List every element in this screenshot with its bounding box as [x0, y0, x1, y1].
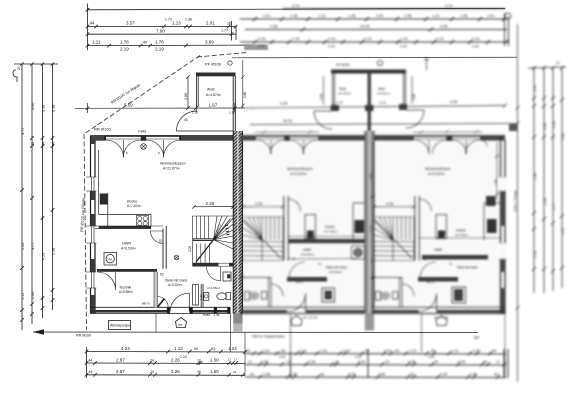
- svg-text:1.13: 1.13: [432, 14, 439, 18]
- svg-text:10: 10: [197, 358, 201, 362]
- bottom chain line 2: [87, 362, 246, 365]
- svg-text:3.99: 3.99: [205, 40, 214, 45]
- svg-text:3.38: 3.38: [52, 105, 56, 112]
- svg-text:A=4.87m²: A=4.87m²: [338, 92, 351, 96]
- bottom chains verticals from plan: [231, 314, 246, 376]
- top dimension chain line 3: [88, 33, 237, 35]
- svg-text:24: 24: [320, 373, 324, 377]
- left wall double line: [91, 136, 96, 314]
- washing machine: [104, 253, 117, 266]
- svg-text:3.38: 3.38: [42, 105, 46, 112]
- svg-text:3.57: 3.57: [126, 21, 135, 26]
- glazing center symbol circle-x: [141, 144, 147, 150]
- blurred unit3 hall door arc: [420, 262, 436, 278]
- shed bottom edge: [197, 107, 234, 132]
- svg-text:1.08: 1.08: [238, 174, 242, 180]
- svg-text:A=1.56m²: A=1.56m²: [207, 286, 220, 290]
- svg-text:1.86: 1.86: [320, 94, 324, 100]
- bottom chain line1 ticks: [85, 350, 247, 354]
- blurred glazing unit3: [414, 137, 480, 139]
- door leaf arcs: [106, 140, 124, 158]
- svg-text:24: 24: [410, 373, 414, 377]
- blurred top chain number blobs: [258, 4, 494, 41]
- svg-text:2.19: 2.19: [258, 37, 265, 41]
- blurred glazing unit2 sill dim: [255, 130, 319, 134]
- svg-text:75/85: 75/85: [203, 313, 211, 317]
- svg-text:1.24: 1.24: [473, 349, 480, 353]
- svg-text:RR Ø100: RR Ø100: [76, 334, 91, 338]
- svg-text:1.38: 1.38: [460, 14, 467, 18]
- Technik door arc into Diele: [157, 297, 168, 308]
- svg-text:3.77: 3.77: [31, 243, 35, 250]
- top chain line1 tick: [86, 8, 90, 12]
- blurred overall line y=124: [250, 124, 517, 125]
- blurred shed door arcs: [314, 111, 332, 129]
- blurred unit2 kitchen counter at party wall 2: [353, 203, 365, 240]
- left wall window2 lines: [86, 226, 97, 243]
- svg-text:2.26: 2.26: [358, 360, 365, 364]
- svg-text:1.13: 1.13: [172, 21, 181, 26]
- small blurred band left of boundary line: [244, 45, 268, 51]
- svg-text:24: 24: [233, 370, 237, 374]
- svg-text:1.50: 1.50: [470, 373, 477, 377]
- bottom wall jamb blocks: [167, 307, 170, 313]
- HWR right wall: [163, 226, 166, 269]
- svg-text:24: 24: [335, 360, 339, 364]
- svg-text:2.87: 2.87: [116, 369, 125, 374]
- left wall window3 lines: [86, 272, 97, 288]
- glazing frame lines: [105, 137, 180, 139]
- svg-text:63: 63: [160, 273, 164, 277]
- svg-text:1.74: 1.74: [336, 101, 343, 105]
- svg-text:2.19: 2.19: [364, 37, 371, 41]
- svg-text:1.77: 1.77: [221, 29, 228, 33]
- shed door arc: [177, 111, 197, 131]
- blurred top chain D: [240, 41, 509, 43]
- top dimension chain line 1: [88, 8, 506, 9]
- svg-text:1.67: 1.67: [209, 102, 218, 107]
- left chain line C: [42, 64, 44, 318]
- svg-text:2.26: 2.26: [171, 369, 180, 374]
- top chain line4 ticks: [86, 44, 188, 48]
- wall between HWR and Technik: [97, 269, 157, 272]
- svg-text:24: 24: [150, 358, 154, 362]
- svg-text:1.18: 1.18: [533, 251, 537, 258]
- svg-text:4.74: 4.74: [292, 4, 299, 8]
- svg-text:2.55: 2.55: [21, 243, 25, 250]
- svg-text:1.01: 1.01: [263, 14, 270, 18]
- svg-text:2.26: 2.26: [308, 360, 315, 364]
- svg-text:2.26: 2.26: [440, 373, 447, 377]
- svg-text:2.26: 2.26: [290, 373, 297, 377]
- left chains mid ticks: [30, 136, 54, 148]
- svg-text:63: 63: [246, 349, 250, 353]
- blurred top wall units 2-3: [240, 135, 505, 137]
- svg-text:1.86: 1.86: [243, 92, 247, 98]
- svg-text:1.00: 1.00: [533, 85, 537, 92]
- svg-text:2.19: 2.19: [155, 47, 164, 52]
- blurred shed side dims: [324, 76, 413, 105]
- svg-text:10: 10: [385, 360, 389, 364]
- blurred unit3 kitchen counter at right wall: [484, 203, 501, 240]
- svg-text:3.38: 3.38: [543, 123, 547, 130]
- svg-text:2.88: 2.88: [533, 173, 537, 180]
- svg-text:1.50: 1.50: [378, 373, 385, 377]
- svg-text:Abst.: Abst.: [378, 87, 386, 91]
- blurred unit3 circle symbol: [441, 231, 446, 236]
- svg-text:45: 45: [184, 118, 188, 122]
- vertical dim at shed left (1.86): [186, 75, 190, 110]
- left wall window1 lines: [86, 177, 97, 191]
- svg-text:A=9.32m²: A=9.32m²: [168, 283, 182, 287]
- blurred unit2 WT symbol: [291, 316, 302, 326]
- svg-text:99: 99: [194, 347, 198, 351]
- svg-text:5.59: 5.59: [124, 102, 133, 107]
- blurred unit2 bottom wall: [240, 307, 365, 313]
- blurred circle at top right end: [505, 13, 511, 19]
- cooktop circles: [137, 215, 149, 226]
- svg-text:2.63: 2.63: [238, 226, 242, 232]
- svg-text:1.76: 1.76: [400, 37, 407, 41]
- svg-text:36 1.01 99: 36 1.01 99: [434, 316, 449, 320]
- svg-text:1.11: 1.11: [21, 293, 25, 300]
- blurred sheds bottom jamb blobs: [331, 105, 339, 111]
- svg-text:44: 44: [52, 142, 56, 146]
- svg-text:34.41: 34.41: [283, 119, 293, 123]
- svg-text:1.24: 1.24: [262, 349, 269, 353]
- top wall lines: [90, 136, 236, 140]
- top dimension chain line 2: [88, 26, 237, 28]
- svg-text:24: 24: [250, 373, 254, 377]
- blurred unit3 WT symbol: [436, 316, 447, 326]
- stair left boundary: [191, 216, 193, 263]
- svg-text:HWR: HWR: [122, 242, 131, 246]
- blurred small window arc right end: [481, 140, 487, 146]
- top chain right end verticals: [232, 21, 237, 41]
- blurred unit2 hall door arc: [289, 262, 305, 278]
- party wall below-wall extension: [233, 314, 242, 324]
- blurred unit3 cooktop column: [436, 215, 447, 239]
- svg-text:Diele mit Gard.: Diele mit Gard.: [165, 279, 188, 283]
- svg-text:1.76: 1.76: [155, 40, 164, 45]
- blurred unit2 stair: [242, 217, 283, 261]
- stair lower treads verticals: [197, 244, 210, 264]
- top chain left extension vertical: [87, 4, 89, 51]
- left chain line A: [21, 64, 23, 330]
- svg-text:63: 63: [211, 347, 215, 351]
- technik wall extension below bottom wall: [155, 314, 157, 333]
- svg-text:1.50: 1.50: [210, 357, 219, 362]
- blurred unit3 stair-side wall: [415, 196, 420, 261]
- svg-text:1.50: 1.50: [210, 369, 219, 374]
- svg-text:Abst.: Abst.: [207, 88, 216, 92]
- svg-text:28: 28: [227, 22, 231, 26]
- blurred sheds center wall: [368, 73, 372, 131]
- svg-text:1.76: 1.76: [292, 37, 299, 41]
- svg-text:4.26: 4.26: [450, 100, 457, 104]
- blurred glazing unit2: [256, 137, 318, 139]
- svg-text:2.25: 2.25: [206, 201, 215, 206]
- left dimension chains (4 vertical): [13, 62, 58, 330]
- left chain line D: [52, 64, 54, 310]
- blurred unit3 washer dark blob: [452, 287, 466, 303]
- blurred unit3 stair wall door arc: [419, 199, 431, 211]
- bottom dimension chains sharp: [85, 314, 247, 379]
- blurred PF circle: [377, 60, 382, 65]
- stair top boundary: [192, 215, 233, 217]
- svg-text:PF Ø100: PF Ø100: [205, 62, 222, 67]
- bottom chain labels: [89, 346, 238, 374]
- svg-text:4.24: 4.24: [121, 346, 130, 351]
- blurred top chain C: [245, 29, 507, 31]
- svg-text:3.88: 3.88: [561, 133, 565, 140]
- dashed pipe line flat segment: [197, 53, 247, 58]
- blurred unit2 stair dim 2.25: [241, 205, 285, 209]
- left wall window gaps (white): [89, 177, 96, 191]
- svg-text:4.74: 4.74: [445, 4, 452, 8]
- top boundary line y=57.5: [232, 56, 517, 59]
- blurred right mini dim cross: [424, 57, 429, 70]
- svg-text:1.86: 1.86: [184, 93, 188, 100]
- svg-text:44: 44: [89, 358, 93, 362]
- svg-text:Küche: Küche: [127, 200, 137, 204]
- svg-text:1.01: 1.01: [487, 14, 494, 18]
- blurred unit2 mid wall band: [287, 277, 327, 282]
- svg-text:99: 99: [365, 349, 369, 353]
- svg-text:1.38: 1.38: [185, 18, 192, 22]
- shed right side vertical dim: [241, 60, 245, 108]
- left chain line B: [31, 64, 33, 324]
- svg-text:3.00: 3.00: [552, 121, 556, 128]
- blurred unit2 kitchen wall band: [288, 239, 365, 243]
- svg-text:10: 10: [287, 360, 291, 364]
- Technik door leaf: [157, 299, 164, 308]
- svg-text:1.01: 1.01: [320, 349, 327, 353]
- blurred 5.59-line continuation: [245, 106, 505, 109]
- svg-text:1.11: 1.11: [92, 40, 101, 45]
- svg-text:99: 99: [492, 349, 496, 353]
- WC vent box: [223, 272, 231, 281]
- svg-text:3.77: 3.77: [21, 128, 25, 135]
- svg-text:Technik: Technik: [119, 286, 131, 290]
- svg-text:1.24: 1.24: [409, 349, 416, 353]
- svg-text:4.29: 4.29: [42, 253, 46, 260]
- svg-text:2.01: 2.01: [206, 21, 215, 26]
- blurred top chain ticks: [253, 17, 506, 21]
- stair walk line lower: [196, 240, 214, 262]
- blurred unit3 stair dim 2.25: [372, 205, 416, 209]
- svg-text:17: 17: [234, 357, 238, 361]
- top chain labels row2: [90, 18, 231, 26]
- svg-text:A=21.87m²: A=21.87m²: [163, 167, 181, 171]
- stair dim 2.25: [194, 206, 233, 208]
- blurred unit2 cooktop column: [305, 215, 316, 239]
- blurred unit3 mid wall band: [418, 277, 458, 282]
- WC left wall: [201, 284, 203, 307]
- blurred party wall 2: [365, 131, 374, 314]
- svg-text:2.19: 2.19: [258, 45, 265, 49]
- svg-text:2.19: 2.19: [472, 37, 479, 41]
- svg-text:2.87: 2.87: [116, 357, 125, 362]
- svg-text:7.00: 7.00: [156, 29, 165, 34]
- svg-text:44: 44: [31, 142, 35, 146]
- top wall corner block left: [90, 136, 105, 140]
- svg-text:29: 29: [17, 66, 21, 70]
- svg-text:2.19: 2.19: [328, 45, 335, 49]
- svg-text:1.86: 1.86: [412, 94, 416, 100]
- bottom chain line2 ticks: [85, 361, 238, 365]
- HWR door arc: [151, 231, 164, 244]
- blurred top chain A: [283, 8, 505, 10]
- shed top wall: [196, 73, 236, 77]
- bottom chains left vertical: [86, 347, 88, 378]
- toilet: [226, 293, 231, 300]
- left chain rotated labels: [17, 66, 56, 300]
- stair walk line upper: [214, 219, 231, 240]
- stair fan tick cluster: [225, 225, 230, 235]
- blurred sheds pair: [331, 70, 406, 74]
- blurred unit2 stair-side wall: [284, 196, 289, 261]
- svg-text:1.24: 1.24: [228, 346, 237, 351]
- svg-text:2.38: 2.38: [543, 198, 547, 205]
- glazing hinge posts: [104, 136, 106, 141]
- top dimension chain line 4: [88, 44, 253, 47]
- svg-text:Abst.: Abst.: [339, 87, 347, 91]
- svg-text:1.13: 1.13: [318, 14, 325, 18]
- top chain labels row3: [156, 29, 228, 34]
- top chain line3 ticks: [86, 32, 234, 36]
- blurred unit3 inner dim line at right wall: [495, 142, 499, 200]
- svg-text:4.29: 4.29: [561, 228, 565, 235]
- shed dim verticals at 1.67 line: [197, 103, 235, 112]
- blurred verticals below bottom wall: [291, 314, 506, 379]
- svg-text:1.13: 1.13: [343, 349, 350, 353]
- svg-text:2.26: 2.26: [171, 357, 180, 362]
- glazing mullion block: [141, 135, 146, 141]
- door HWR->Technik arc: [98, 272, 116, 290]
- stair winder fan: [214, 216, 234, 249]
- left chains hook symbol: [13, 70, 17, 82]
- kitchen counter outline: [99, 150, 151, 226]
- dashed pipe line diagonal (RR zur Rigole): [84, 56, 200, 135]
- blurred top chain B: [240, 18, 507, 20]
- blurred unit2 WC fill tints: [251, 293, 258, 298]
- entrance door arc: [170, 293, 189, 311]
- svg-text:1.24: 1.24: [384, 349, 391, 353]
- bottom wall band: [91, 306, 231, 308]
- wardrobe in Diele: [193, 285, 199, 306]
- blurred unit3 bottom wall: [372, 307, 506, 313]
- kitchen wall band: [99, 226, 151, 229]
- svg-text:4.36: 4.36: [270, 25, 277, 29]
- svg-text:A=6.53m²: A=6.53m²: [121, 247, 137, 251]
- Waermepumpe box: [109, 321, 131, 330]
- blurred unit3 party-side vertical dim: [371, 141, 375, 307]
- svg-text:3.00: 3.00: [31, 103, 35, 110]
- blurred unit3 entrance arc: [419, 294, 437, 312]
- WC sink: [204, 293, 209, 301]
- svg-text:2.19: 2.19: [328, 37, 335, 41]
- svg-text:1.38: 1.38: [214, 313, 220, 317]
- svg-text:44: 44: [90, 21, 96, 26]
- svg-text:S#: S#: [474, 335, 480, 340]
- svg-text:A=5.98m²: A=5.98m²: [119, 290, 133, 294]
- svg-text:99: 99: [281, 349, 285, 353]
- wall band below stair (WC top wall): [192, 263, 218, 267]
- svg-text:2.19: 2.19: [472, 45, 479, 49]
- blurred unit3 stair: [373, 217, 414, 261]
- svg-text:SW im Treppenhaus: SW im Treppenhaus: [252, 335, 285, 339]
- svg-text:4.26: 4.26: [280, 102, 287, 106]
- svg-text:2.26: 2.26: [348, 373, 355, 377]
- svg-text:1.73: 1.73: [165, 18, 172, 22]
- svg-text:A=4.87m²: A=4.87m²: [206, 93, 222, 97]
- top chain labels row4: [92, 40, 214, 52]
- svg-text:FaRa: FaRa: [138, 130, 146, 134]
- svg-text:PF Ø100: PF Ø100: [336, 63, 350, 67]
- bottom chain line 1: [87, 351, 246, 354]
- blurred unit2 technik dark blob: [322, 288, 335, 302]
- svg-text:36: 36: [197, 370, 201, 374]
- svg-text:A=4.87m²: A=4.87m²: [377, 92, 390, 96]
- left wall dark piers: [91, 214, 96, 226]
- svg-text:1.50: 1.50: [263, 373, 270, 377]
- bottom chain line 3: [87, 374, 246, 377]
- svg-text:1.50: 1.50: [408, 360, 415, 364]
- svg-text:2.02: 2.02: [188, 246, 192, 252]
- blurred unit2 WC: [240, 277, 271, 307]
- WC door arc: [207, 267, 221, 281]
- svg-text:2.24: 2.24: [428, 355, 434, 359]
- left chains lower ticks: [20, 188, 54, 322]
- electric symbol circle right of HWR wall: [174, 255, 179, 260]
- blurred glazing unit3 sill dim: [413, 130, 482, 135]
- svg-text:2.19: 2.19: [120, 47, 129, 52]
- kitchen sink dark: [100, 194, 108, 205]
- svg-text:1.38: 1.38: [290, 14, 297, 18]
- svg-text:49: 49: [143, 41, 147, 45]
- svg-text:2.24: 2.24: [355, 355, 361, 359]
- svg-text:1.38: 1.38: [348, 14, 355, 18]
- svg-text:2.24: 2.24: [279, 355, 285, 359]
- svg-text:24: 24: [434, 360, 438, 364]
- svg-text:Wohnen/Essen: Wohnen/Essen: [160, 162, 186, 166]
- svg-text:90: 90: [159, 239, 163, 243]
- svg-text:2.26: 2.26: [458, 360, 465, 364]
- left chains top ticks: [14, 62, 58, 66]
- svg-text:2.00: 2.00: [31, 292, 35, 299]
- svg-text:A=7.40m²: A=7.40m²: [127, 204, 141, 208]
- svg-text:WT: WT: [178, 323, 183, 327]
- svg-text:36 1.01 99: 36 1.01 99: [303, 316, 318, 320]
- svg-text:17: 17: [496, 360, 500, 364]
- svg-text:2.19: 2.19: [436, 37, 443, 41]
- svg-text:1.38: 1.38: [404, 14, 411, 18]
- blurred unit2 stair wall door arc: [288, 199, 300, 211]
- svg-text:44: 44: [483, 360, 487, 364]
- svg-text:1.13: 1.13: [299, 349, 306, 353]
- svg-text:63: 63: [395, 349, 399, 353]
- shed right wall: [233, 76, 235, 131]
- blurred unit3 WC fill tints: [382, 293, 389, 298]
- dashed pipe line vertical: [84, 134, 87, 330]
- svg-text:1.21: 1.21: [199, 294, 203, 300]
- svg-text:44: 44: [89, 370, 93, 374]
- svg-text:17: 17: [248, 360, 252, 364]
- blurred unit3 WC: [372, 277, 403, 307]
- svg-text:Wärmepumpe: Wärmepumpe: [110, 324, 130, 328]
- blurred unit2 entrance arc: [288, 294, 306, 312]
